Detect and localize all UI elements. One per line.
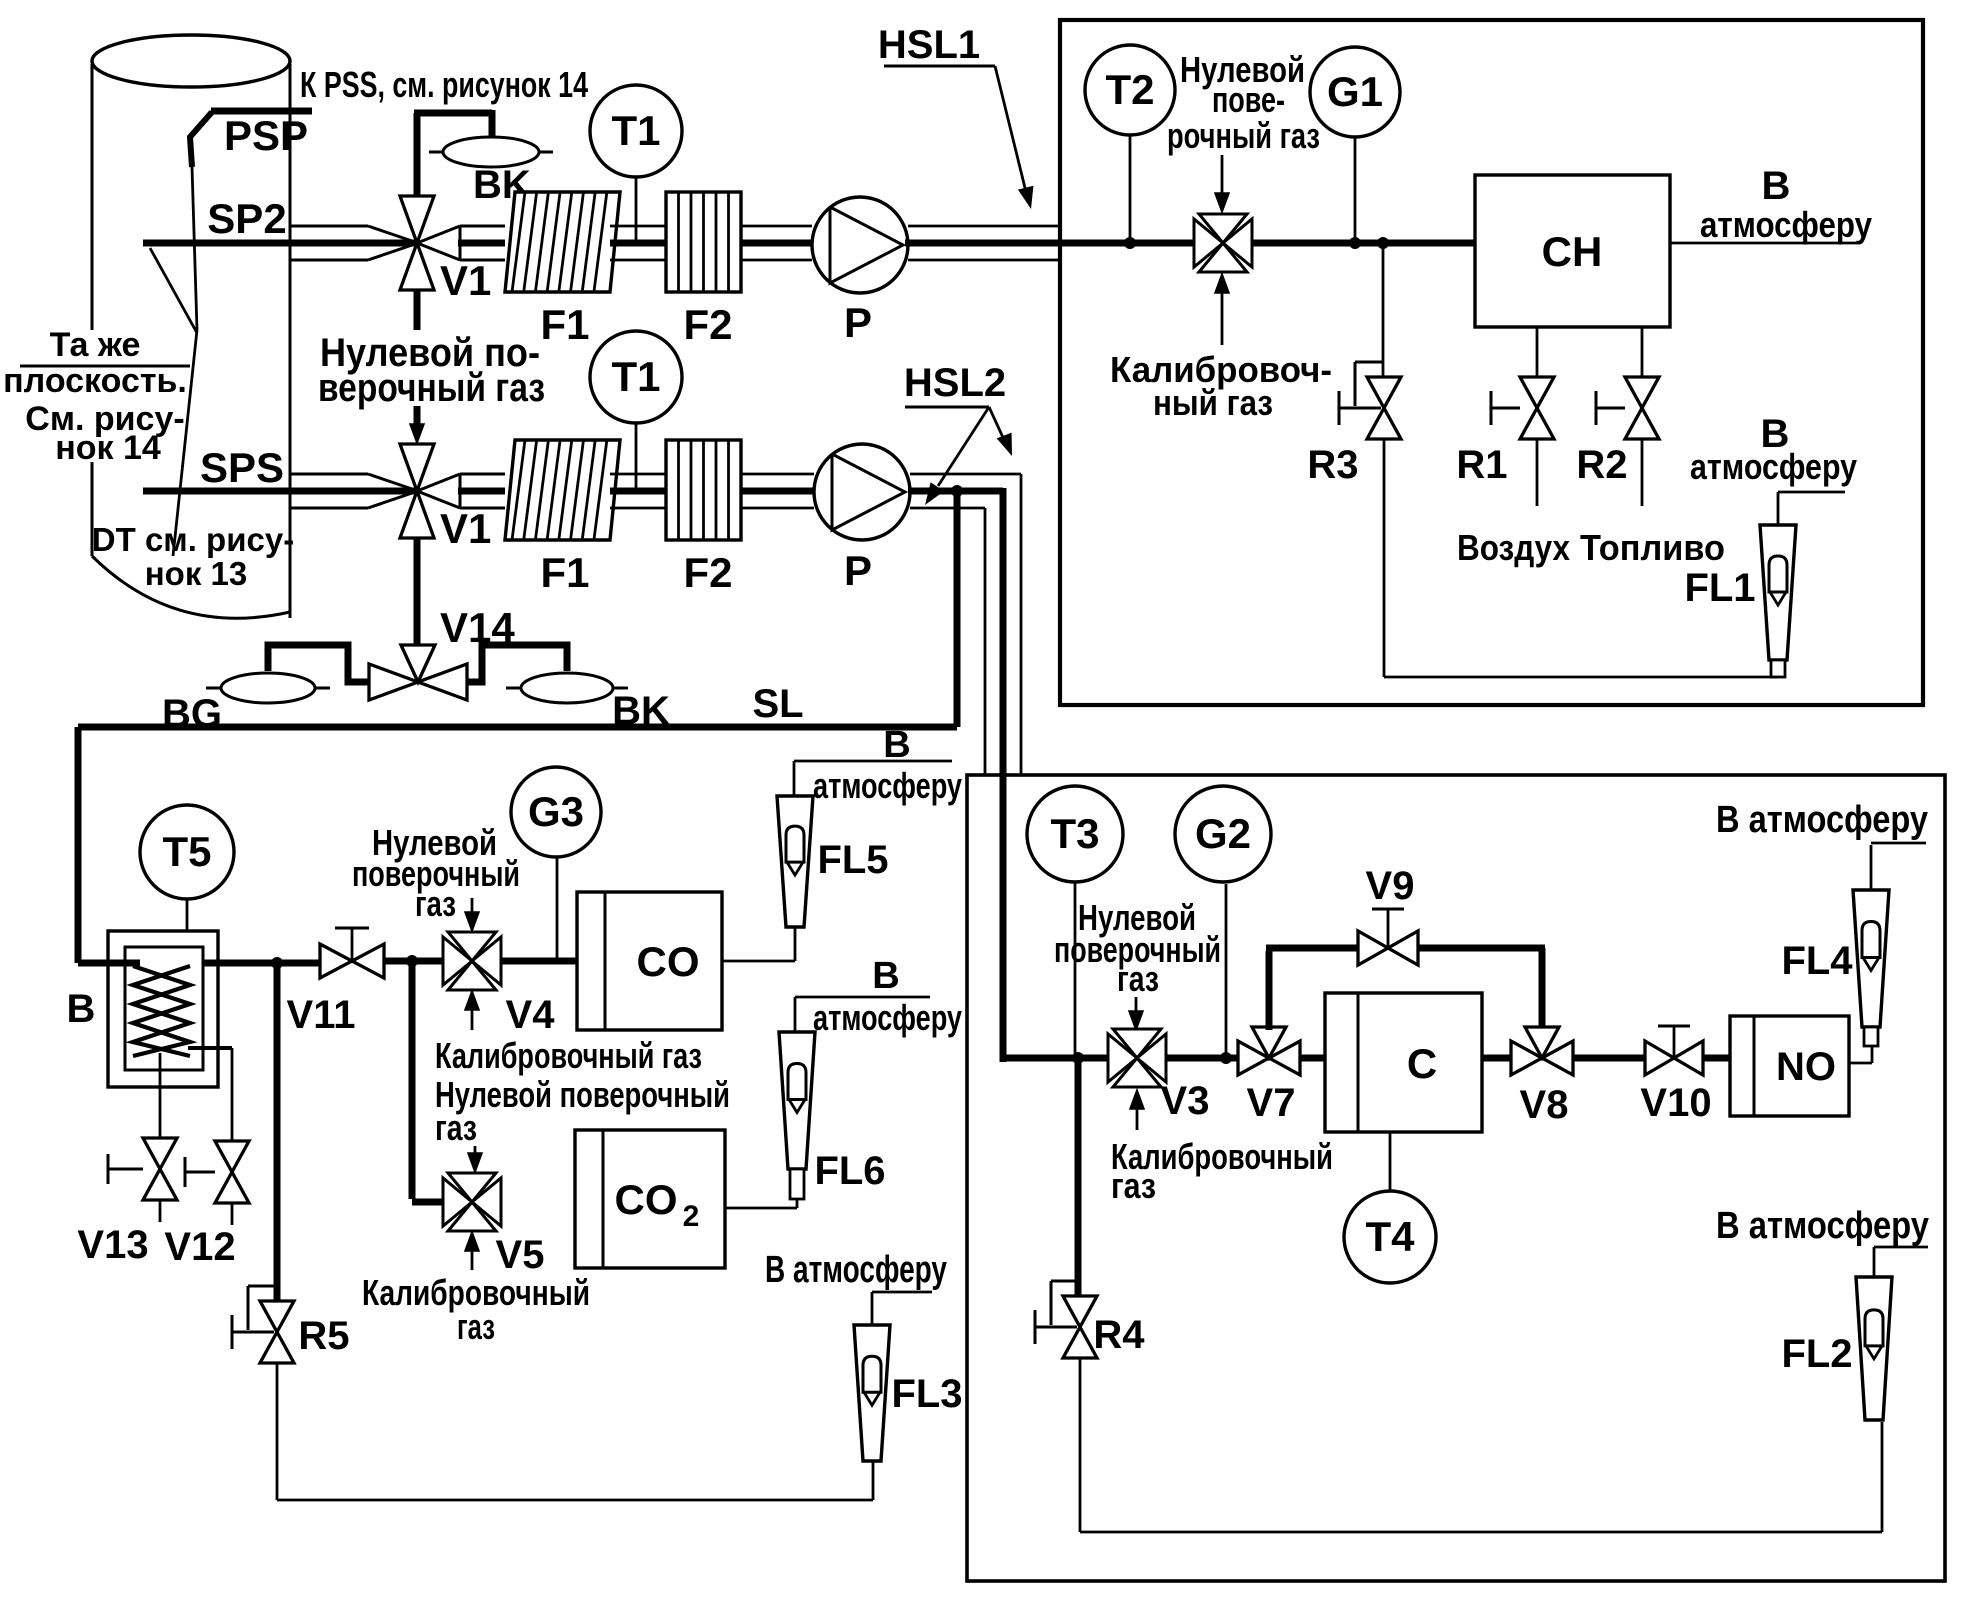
svg-text:CO: CO <box>637 938 700 985</box>
probe leader line <box>150 248 197 333</box>
filter F2 (upper) <box>666 192 741 292</box>
gauge G2 stem <box>1220 884 1232 1064</box>
flowmeter FL2 <box>1856 1277 1892 1420</box>
label P <box>844 299 872 346</box>
label V1 <box>440 257 491 304</box>
wire V5 branch <box>412 961 443 1202</box>
node junction R3 branch <box>1377 237 1389 249</box>
valve V5 (4-way cross) <box>443 1173 501 1231</box>
valve V10 <box>1645 1026 1703 1075</box>
valve V14 (3-way) <box>369 645 467 700</box>
label FL4 <box>1781 939 1853 983</box>
svg-text:F2: F2 <box>683 301 732 348</box>
svg-text:FL4: FL4 <box>1781 939 1853 983</box>
svg-text:R1: R1 <box>1456 443 1507 487</box>
gauge G2 <box>1175 786 1271 882</box>
svg-text:В: В <box>1762 164 1791 208</box>
wire BG branch <box>268 645 370 682</box>
svg-text:В атмосферу: В атмосферу <box>1716 1205 1929 1247</box>
label К PSS <box>300 64 588 105</box>
blower BG <box>206 673 330 703</box>
nozzle SP2 <box>290 226 415 260</box>
cooler coil <box>133 966 190 1056</box>
svg-text:V1: V1 <box>440 505 491 552</box>
cabinet box 2 <box>967 775 1945 1581</box>
node junction R5 branch <box>271 957 283 969</box>
wire R4 to FL2 loop <box>1080 1358 1882 1532</box>
label F1 (lower) <box>540 549 589 596</box>
label В атмосферу (FL4) <box>1716 799 1928 841</box>
gauge T5 <box>140 805 234 899</box>
wire bypass V9 to V8 <box>1419 948 1545 1030</box>
blower BK (upper) <box>429 137 553 167</box>
svg-text:T1: T1 <box>611 107 660 154</box>
svg-text:нок 13: нок 13 <box>145 555 247 592</box>
svg-text:плоскость.: плоскость. <box>3 362 187 400</box>
label Нулевой поверочный газ (cabinet2) <box>1054 897 1221 999</box>
gauge T1 stem <box>635 177 638 243</box>
wire cal gas arrow V5 <box>465 1232 479 1270</box>
wire main line in cabinet 1 <box>1060 240 1475 247</box>
label Та же плоскость <box>3 326 190 467</box>
svg-text:атмосферу: атмосферу <box>1700 204 1872 245</box>
svg-text:верочный газ: верочный газ <box>318 366 545 410</box>
svg-text:SPS: SPS <box>200 444 284 491</box>
wire zero gas arrow (cabinet1) <box>1215 155 1229 212</box>
wire pump outlet heated line (HSL2) <box>908 474 1021 1062</box>
valve V11 <box>320 928 384 978</box>
svg-text:газ: газ <box>457 1306 495 1347</box>
valve V3 (4-way cross) <box>1108 1029 1166 1087</box>
gauge T3 stem <box>1074 882 1077 1058</box>
label Топливо <box>1580 527 1725 568</box>
svg-text:R3: R3 <box>1307 443 1358 487</box>
valve V4 (4-way cross) <box>443 932 501 990</box>
wire C-V8 <box>1482 1055 1512 1062</box>
svg-text:T3: T3 <box>1050 810 1099 857</box>
label Воздух <box>1457 527 1570 568</box>
svg-text:ный газ: ный газ <box>1153 382 1273 423</box>
label Нулевой поверочный газ (V4) <box>352 822 520 924</box>
label V7 <box>1247 1081 1296 1125</box>
label SP2 <box>207 195 286 242</box>
wire SL line <box>78 727 957 963</box>
gauge T4 <box>1344 1191 1436 1283</box>
label R5 <box>298 1314 349 1358</box>
wire F2-P <box>741 226 814 260</box>
gauge G1 stem <box>1349 137 1361 249</box>
node junction R4 branch <box>1072 1052 1084 1064</box>
svg-text:Воздух: Воздух <box>1457 527 1570 568</box>
svg-text:V12: V12 <box>164 1225 235 1269</box>
node junction V5 branch <box>406 955 418 967</box>
wire cal gas arrow V3 <box>1130 1090 1144 1130</box>
svg-text:V3: V3 <box>1161 1079 1210 1123</box>
wire BK branch (valve V1 to blower BK) <box>414 110 492 196</box>
blower BK (lower) <box>506 673 628 703</box>
analyzer CO box <box>577 892 722 1030</box>
wire SL to cooler <box>78 960 140 967</box>
svg-text:F2: F2 <box>683 549 732 596</box>
label F2 (lower) <box>683 549 732 596</box>
gauge G3 stem <box>556 857 559 961</box>
valve R1 stem <box>1536 327 1539 377</box>
valve V1 (lower 3-way) <box>400 444 460 538</box>
label SL <box>752 682 803 726</box>
svg-text:FL1: FL1 <box>1684 566 1755 610</box>
wire HSL1 heated line pump to cabinet <box>905 226 1062 260</box>
wire V3-V7 <box>1166 1055 1239 1062</box>
svg-text:Та же: Та же <box>50 326 141 364</box>
gauge G3 <box>511 767 601 857</box>
svg-text:F1: F1 <box>540 549 589 596</box>
label V12 <box>164 1225 235 1269</box>
label V13 <box>77 1223 148 1267</box>
label V3 <box>1161 1079 1210 1123</box>
svg-text:В: В <box>883 724 910 766</box>
svg-text:V10: V10 <box>1640 1081 1711 1125</box>
valve R3 (regulator) <box>1339 362 1401 439</box>
label FL6 <box>814 1149 885 1193</box>
label V14 <box>440 604 515 651</box>
label HSL1 <box>878 23 995 67</box>
label В атмосферу (CH outlet) <box>1700 164 1872 245</box>
label В атмосферу (FL3) <box>765 1249 947 1291</box>
label Нулевой поверочный газ (between V1 valves) <box>318 331 545 410</box>
svg-text:В: В <box>872 955 899 997</box>
label V11 <box>287 993 356 1037</box>
label B (cooler) <box>67 987 96 1031</box>
label F1 <box>540 301 589 348</box>
wire R3 to FL1 loop <box>1384 439 1778 677</box>
valve V12 <box>185 1141 249 1225</box>
wire zero-gas arrow into V1 <box>410 406 424 443</box>
label Нулевой поверочный газ (V5) <box>435 1074 730 1148</box>
label FL5 <box>817 838 888 882</box>
label BG <box>162 692 222 736</box>
valve V8 (3-way) <box>1511 1027 1573 1075</box>
filter F1 (upper) <box>505 192 620 292</box>
svg-text:V4: V4 <box>506 993 556 1037</box>
gauge T2 stem <box>1124 135 1136 249</box>
svg-text:FL6: FL6 <box>814 1149 885 1193</box>
wire zero-gas stub below V1 <box>414 290 421 330</box>
valve R2 <box>1596 377 1659 439</box>
svg-text:R4: R4 <box>1093 1313 1145 1357</box>
label BK <box>473 163 531 207</box>
wire BK branch (lower) <box>467 645 567 682</box>
gauge G1 <box>1310 47 1400 137</box>
svg-text:V13: V13 <box>77 1223 148 1267</box>
flowmeter FL6 <box>779 1032 815 1199</box>
svg-text:C: C <box>1407 1040 1437 1087</box>
svg-text:V1: V1 <box>440 257 491 304</box>
svg-text:F1: F1 <box>540 301 589 348</box>
valve R4 (regulator) <box>1035 1281 1097 1358</box>
svg-text:газ: газ <box>415 883 456 924</box>
label PSP <box>224 112 308 159</box>
wire FL4 outlet <box>1871 843 1926 890</box>
svg-text:рочный газ: рочный газ <box>1167 115 1320 156</box>
svg-text:T4: T4 <box>1365 1213 1415 1260</box>
wire F1-F2 (lower) <box>610 474 666 508</box>
gauge T1 (lower) <box>590 331 682 423</box>
cooler B outer box <box>108 931 218 1087</box>
label BK (lower) <box>612 689 670 733</box>
label FL2 <box>1781 1332 1852 1376</box>
gauge T5 stem <box>186 899 189 931</box>
wire F2-P (lower) <box>741 474 816 508</box>
gauge T3 <box>1027 786 1123 882</box>
wire F1-F2 <box>610 226 666 260</box>
svg-text:P: P <box>844 547 872 594</box>
nozzle SPS <box>290 474 415 508</box>
wire V8-V10 <box>1572 1055 1645 1062</box>
svg-text:газ: газ <box>1117 958 1159 999</box>
cooler B inner box <box>125 947 203 1070</box>
svg-text:HSL2: HSL2 <box>904 361 1006 405</box>
label FL1 <box>1684 566 1755 610</box>
svg-text:газ: газ <box>1111 1165 1156 1206</box>
gauge T4 stem <box>1389 1132 1392 1191</box>
label В атмосферу (FL6) <box>813 955 962 1038</box>
wire V1 outlet <box>458 226 505 260</box>
gauge T1 (upper) <box>590 85 682 177</box>
valve V1 (upper 3-way) <box>400 196 460 290</box>
wire CO2 outlet <box>725 1200 797 1208</box>
label V9 <box>1366 864 1415 908</box>
svg-text:V5: V5 <box>496 1233 545 1277</box>
svg-text:V9: V9 <box>1366 864 1415 908</box>
wire zero gas arrow V3 <box>1129 997 1143 1030</box>
label Нулевой поверочный газ (cabinet1) <box>1167 49 1320 156</box>
probe DT lead line <box>173 330 197 556</box>
wire V4-CO <box>501 958 577 965</box>
wire cooler drain left <box>159 1053 162 1138</box>
label V8 <box>1520 1083 1569 1127</box>
valve R5 (regulator) <box>232 1286 294 1363</box>
wire NO outlet to FL4 <box>1849 1046 1872 1063</box>
svg-text:К PSS, см. рисунок 14: К PSS, см. рисунок 14 <box>300 64 588 105</box>
svg-text:NO: NO <box>1776 1045 1836 1089</box>
wire bypass V7 to V9 <box>1266 948 1358 1030</box>
pointer HSL1 arrow <box>995 66 1039 211</box>
svg-text:Топливо: Топливо <box>1580 527 1725 568</box>
svg-text:атмосферу: атмосферу <box>1690 446 1857 487</box>
label HSL2 <box>904 361 1006 407</box>
wire cooler drain right <box>188 1048 232 1141</box>
svg-text:В атмосферу: В атмосферу <box>1716 799 1928 841</box>
wire CH outlet to atmosphere <box>1670 242 1860 245</box>
wire R5 branch <box>274 963 281 1302</box>
svg-text:SP2: SP2 <box>207 195 286 242</box>
label FL3 <box>891 1372 962 1416</box>
svg-text:атмосферу: атмосферу <box>813 997 962 1038</box>
filter F1 (lower) <box>505 440 620 540</box>
svg-text:T5: T5 <box>162 828 211 875</box>
svg-text:T1: T1 <box>611 353 660 400</box>
valve R2 stem <box>1641 327 1644 377</box>
gauge T2 <box>1085 45 1175 135</box>
wire R5 to FL3 loop <box>277 1362 873 1500</box>
PSS heated line to PSS <box>211 108 312 115</box>
wire SL branch down <box>954 491 961 727</box>
wire V11-V4 <box>384 958 443 965</box>
svg-text:V7: V7 <box>1247 1081 1296 1125</box>
probe PSP <box>190 112 212 330</box>
svg-text:HSL1: HSL1 <box>878 23 980 67</box>
svg-text:Нулевой поверочный: Нулевой поверочный <box>435 1074 730 1115</box>
svg-text:В атмосферу: В атмосферу <box>765 1249 947 1291</box>
cabinet box 1 <box>1060 20 1923 705</box>
svg-text:PSP: PSP <box>224 112 308 159</box>
wire zero gas arrow V5 <box>468 1146 482 1172</box>
wire V1 lower outlet <box>458 474 505 508</box>
label В атмосферу (FL1 outlet) <box>1690 412 1857 487</box>
svg-text:G2: G2 <box>1195 810 1251 857</box>
flowmeter FL3 <box>854 1325 890 1461</box>
label В атмосферу (FL5) <box>813 724 962 806</box>
svg-text:газ: газ <box>435 1107 477 1148</box>
node junction SL branch <box>951 485 963 497</box>
label V10 <box>1640 1081 1711 1125</box>
wire cal gas arrow V4 <box>465 991 479 1030</box>
svg-text:нок 14: нок 14 <box>55 429 161 467</box>
valve R1 <box>1491 377 1554 439</box>
wire cooler outlet main line <box>203 960 320 967</box>
label R2 <box>1576 443 1627 487</box>
wire V1 to V14 <box>414 537 421 648</box>
flowmeter FL1 <box>1760 525 1796 677</box>
label SPS <box>200 444 284 491</box>
valve V9 <box>1358 909 1418 965</box>
svg-text:B: B <box>67 987 96 1031</box>
valve V7 (3-way) <box>1238 1027 1300 1075</box>
analyzer CH box <box>1475 175 1670 327</box>
label V1 (lower) <box>440 505 491 552</box>
pump P (upper) <box>812 197 908 293</box>
wire R3 branch <box>1382 243 1385 377</box>
wire R2 fuel inlet <box>1641 439 1644 506</box>
label Калибровочный газ (V4) <box>435 1035 702 1076</box>
svg-text:пове-: пове- <box>1212 79 1285 120</box>
analyzer NO box <box>1730 1016 1849 1116</box>
label R3 <box>1307 443 1358 487</box>
label Калибровочный газ (V5) <box>362 1272 590 1347</box>
wire FL1 outlet <box>1778 492 1845 525</box>
wire SP2 sample line <box>143 240 417 247</box>
svg-text:G3: G3 <box>528 788 584 835</box>
wire V7-C <box>1300 1055 1325 1062</box>
svg-text:DT см. рису-: DT см. рису- <box>92 521 294 558</box>
analyzer CO2 box <box>575 1130 725 1268</box>
valve selector (4-way cross, cabinet1) <box>1194 214 1252 272</box>
wire zero gas arrow V4 <box>465 898 479 931</box>
svg-text:V11: V11 <box>287 993 356 1037</box>
gauge T1 stem (lower) <box>635 424 638 491</box>
svg-text:CH: CH <box>1542 228 1603 275</box>
wire R4 branch <box>1075 1058 1082 1297</box>
svg-text:2: 2 <box>683 1200 700 1233</box>
flowmeter FL4 <box>1853 890 1889 1046</box>
wire R1 air inlet <box>1536 439 1539 506</box>
pump P (lower) <box>814 444 910 540</box>
svg-text:R2: R2 <box>1576 443 1627 487</box>
label Калибровочный газ (cabinet1) <box>1110 349 1332 423</box>
svg-text:FL3: FL3 <box>891 1372 962 1416</box>
svg-text:P: P <box>844 299 872 346</box>
label V5 <box>496 1233 545 1277</box>
valve V13 <box>108 1138 177 1222</box>
stack cylinder (duct) <box>92 35 290 618</box>
pointer HSL2 arrows <box>918 407 1019 509</box>
label P (lower) <box>844 547 872 594</box>
svg-text:V8: V8 <box>1520 1083 1569 1127</box>
svg-text:G1: G1 <box>1327 68 1383 115</box>
svg-text:SL: SL <box>752 682 803 726</box>
label DT <box>92 521 294 592</box>
label В атмосферу (FL2) <box>1716 1205 1929 1247</box>
wire FL2 outlet <box>1874 1247 1928 1277</box>
svg-text:Калибровочный газ: Калибровочный газ <box>435 1035 702 1076</box>
svg-text:FL2: FL2 <box>1781 1332 1852 1376</box>
svg-text:CO: CO <box>615 1176 678 1223</box>
wire FL3 outlet <box>872 1292 932 1325</box>
wire FL5 outlet <box>794 761 952 796</box>
label V4 <box>506 993 556 1037</box>
wire CO outlet <box>722 927 795 961</box>
filter F2 (lower) <box>666 440 741 540</box>
label R1 <box>1456 443 1507 487</box>
svg-text:FL5: FL5 <box>817 838 888 882</box>
svg-text:атмосферу: атмосферу <box>813 765 962 806</box>
svg-text:T2: T2 <box>1105 66 1154 113</box>
flowmeter FL5 <box>777 796 813 927</box>
label R4 <box>1093 1313 1145 1357</box>
analyzer C box <box>1325 993 1482 1132</box>
wire SPS sample line <box>143 488 417 495</box>
label Калибровочный газ (cabinet2) <box>1111 1136 1333 1206</box>
label F2 <box>683 301 732 348</box>
svg-text:R5: R5 <box>298 1314 349 1358</box>
wire entry into cabinet2 <box>1003 1055 1108 1062</box>
wire FL6 outlet <box>795 997 930 1032</box>
wire V10-NO <box>1703 1055 1730 1062</box>
wire cal gas arrow (cabinet1) <box>1215 274 1229 345</box>
